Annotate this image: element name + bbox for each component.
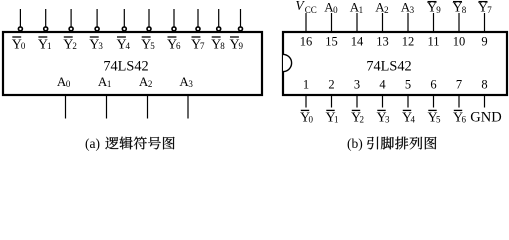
svg-text:9: 9 (436, 5, 441, 15)
label Y1 (active-low output, left diagram) (38, 37, 52, 52)
label Y9 (top pin net, active low) (427, 0, 441, 15)
svg-text:7: 7 (487, 5, 492, 15)
svg-text:7: 7 (456, 78, 462, 92)
caption a char 符 (134, 137, 147, 150)
svg-text:13: 13 (376, 35, 389, 49)
svg-text:7: 7 (200, 41, 205, 51)
label Y5 (active-low output, left diagram) (141, 37, 155, 52)
inversion bubble on output Y1 (44, 27, 48, 31)
inversion bubble on output Y2 (69, 27, 73, 31)
wire: output lead Y4 (top, left diagram) (123, 9, 125, 27)
inversion bubble on output Y6 (172, 27, 176, 31)
wire: input lead A3 (bottom, left diagram) (187, 95, 189, 119)
wire: output lead Y7 (top, left diagram) (197, 9, 199, 27)
svg-text:9: 9 (239, 41, 244, 51)
wire: top lead pin 13 (right diagram) (382, 13, 384, 31)
svg-text:5: 5 (150, 41, 155, 51)
svg-text:2: 2 (360, 114, 365, 124)
label A1 (top pin net) (350, 0, 363, 15)
svg-text:0: 0 (66, 79, 71, 89)
label GND (pin 8 net) (470, 110, 501, 126)
label Y7 (top pin net, active low) (478, 0, 492, 15)
svg-text:16: 16 (300, 35, 313, 49)
svg-text:0: 0 (333, 5, 338, 15)
pin number 13 (376, 35, 389, 49)
label: part number 74LS42 (left diagram) (103, 58, 148, 74)
label A0 (input, left diagram) (57, 74, 71, 89)
label Y3 (bottom pin net, active low) (376, 110, 390, 125)
wire: output lead Y8 (top, left diagram) (218, 9, 220, 27)
label Y2 (bottom pin net, active low) (351, 110, 364, 125)
pin number 3 (354, 78, 360, 92)
svg-text:4: 4 (379, 78, 386, 92)
svg-text:6: 6 (430, 78, 436, 92)
svg-text:6: 6 (462, 114, 467, 124)
pin number 4 (379, 78, 386, 92)
label Y4 (bottom pin net, active low) (402, 110, 416, 125)
IC U2: 74LS42 DIP package outline (right rectangle) (283, 32, 507, 95)
pin number 7 (456, 78, 462, 92)
svg-text:2: 2 (72, 41, 77, 51)
IC U1: 74LS42 decoder logic-symbol body (left rectangle) (3, 32, 262, 95)
wire: bottom lead pin 8 (right diagram) (484, 95, 486, 108)
pin number 9 (481, 35, 487, 49)
wire: bottom lead pin 7 (right diagram) (458, 95, 460, 108)
svg-text:3: 3 (188, 79, 193, 89)
label A3 (input, left diagram) (179, 74, 193, 89)
wire: output lead Y9 (top, left diagram) (240, 9, 242, 27)
label Y3 (active-low output, left diagram) (89, 37, 103, 52)
label A2 (top pin net) (375, 0, 388, 15)
svg-text:74LS42: 74LS42 (103, 58, 148, 74)
caption a char 逻 (105, 137, 118, 150)
wire: bottom lead pin 4 (right diagram) (382, 95, 384, 108)
svg-text:2: 2 (384, 5, 389, 15)
wire: bottom lead pin 2 (right diagram) (331, 95, 333, 108)
label A1 (input, left diagram) (98, 74, 111, 89)
svg-text:1: 1 (359, 5, 364, 15)
svg-text:3: 3 (385, 114, 390, 124)
caption (b) prefix (347, 136, 363, 151)
svg-text:(b): (b) (347, 136, 363, 151)
svg-text:12: 12 (402, 35, 415, 49)
svg-text:74LS42: 74LS42 (366, 58, 411, 74)
wire: top lead pin 14 (right diagram) (356, 13, 358, 31)
svg-text:CC: CC (305, 5, 317, 15)
inversion bubble on output Y3 (95, 27, 99, 31)
inversion bubble on output Y9 (239, 27, 243, 31)
inversion bubble on output Y8 (217, 27, 221, 31)
pin number 12 (402, 35, 415, 49)
svg-text:2: 2 (148, 79, 153, 89)
svg-text:9: 9 (481, 35, 487, 49)
label Y2 (active-low output, left diagram) (63, 37, 77, 52)
pin number 10 (453, 35, 466, 49)
label Y0 (active-low output, left diagram) (12, 37, 26, 52)
pin number 2 (328, 78, 334, 92)
label A2 (input, left diagram) (139, 74, 152, 89)
wire: input lead A0 (bottom, left diagram) (65, 95, 67, 119)
wire: top lead pin 9 (right diagram) (484, 13, 486, 31)
label Y6 (active-low output, left diagram) (167, 37, 181, 52)
label VCC (pin 16 net) (295, 0, 316, 15)
wire: output lead Y2 (top, left diagram) (70, 9, 72, 27)
label Y1 (bottom pin net, active low) (325, 110, 338, 125)
svg-text:(a): (a) (85, 136, 100, 151)
caption b char 脚 (381, 137, 394, 150)
wire: top lead pin 12 (right diagram) (407, 13, 409, 31)
svg-text:6: 6 (176, 41, 181, 51)
wire: top lead pin 11 (right diagram) (433, 13, 435, 31)
svg-text:0: 0 (21, 41, 26, 51)
caption a char 号 (148, 137, 161, 150)
inversion bubble on output Y0 (18, 27, 22, 31)
label Y0 (bottom pin net, active low) (300, 110, 314, 125)
svg-text:3: 3 (354, 78, 360, 92)
svg-text:1: 1 (47, 41, 52, 51)
caption b char 列 (410, 137, 423, 150)
pin number 15 (325, 35, 338, 49)
caption a char 辑 (120, 137, 133, 150)
inversion bubble on output Y4 (122, 27, 126, 31)
caption a char 图 (163, 137, 175, 150)
wire: bottom lead pin 3 (right diagram) (356, 95, 358, 108)
svg-text:GND: GND (470, 110, 501, 126)
svg-text:8: 8 (462, 5, 467, 15)
svg-text:3: 3 (410, 5, 415, 15)
svg-text:0: 0 (309, 114, 314, 124)
svg-text:5: 5 (436, 114, 441, 124)
pin number 8 (481, 78, 487, 92)
svg-text:8: 8 (220, 41, 225, 51)
wire: output lead Y5 (top, left diagram) (148, 9, 150, 27)
svg-text:10: 10 (453, 35, 466, 49)
svg-text:14: 14 (351, 35, 364, 49)
wire: top lead pin 16 (right diagram) (305, 13, 307, 31)
wire: output lead Y1 (top, left diagram) (45, 9, 47, 27)
caption (a) prefix (85, 136, 100, 151)
wire: bottom lead pin 6 (right diagram) (433, 95, 435, 108)
label Y7 (active-low output, left diagram) (191, 37, 205, 52)
label Y8 (active-low output, left diagram) (211, 37, 225, 52)
label Y8 (top pin net, active low) (452, 0, 466, 15)
wire: top lead pin 15 (right diagram) (331, 13, 333, 31)
svg-text:3: 3 (98, 41, 103, 51)
svg-text:8: 8 (481, 78, 487, 92)
wire: bottom lead pin 5 (right diagram) (407, 95, 409, 108)
svg-text:15: 15 (325, 35, 338, 49)
svg-text:5: 5 (405, 78, 411, 92)
wire: output lead Y0 (top, left diagram) (19, 9, 21, 27)
caption b char 图 (425, 137, 437, 150)
wire: top lead pin 10 (right diagram) (458, 13, 460, 31)
svg-text:1: 1 (334, 114, 339, 124)
wire: bottom lead pin 1 (right diagram) (305, 95, 307, 108)
pin-1 index notch on DIP package (283, 54, 292, 71)
caption b char 排 (395, 137, 408, 150)
inversion bubble on output Y5 (147, 27, 151, 31)
pin number 6 (430, 78, 436, 92)
label Y5 (bottom pin net, active low) (427, 110, 441, 125)
svg-text:1: 1 (303, 78, 309, 92)
wire: input lead A1 (bottom, left diagram) (106, 95, 108, 119)
label A3 (top pin net) (401, 0, 415, 15)
pin number 16 (300, 35, 313, 49)
pin number 11 (427, 35, 439, 49)
label Y6 (bottom pin net, active low) (453, 110, 467, 125)
pin number 14 (351, 35, 364, 49)
svg-text:4: 4 (411, 114, 416, 124)
wire: input lead A2 (bottom, left diagram) (147, 95, 149, 119)
svg-text:4: 4 (126, 41, 131, 51)
caption b char 引 (367, 137, 378, 150)
svg-text:1: 1 (107, 79, 112, 89)
wire: output lead Y6 (top, left diagram) (173, 9, 175, 27)
label A0 (top pin net) (324, 0, 338, 15)
label: part number 74LS42 (right diagram) (366, 58, 411, 74)
pin number 1 (303, 78, 309, 92)
inversion bubble on output Y7 (196, 27, 200, 31)
pin number 5 (405, 78, 411, 92)
label Y4 (active-low output, left diagram) (116, 37, 130, 52)
svg-text:2: 2 (328, 78, 334, 92)
caption CJK glyphs (drawn as paths) (105, 137, 436, 150)
wire: output lead Y3 (top, left diagram) (96, 9, 98, 27)
label Y9 (active-low output, left diagram) (229, 37, 243, 52)
svg-text:11: 11 (427, 35, 439, 49)
